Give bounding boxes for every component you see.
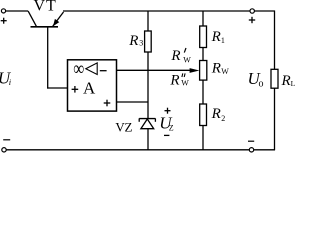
wire right rail bottom (274, 88, 276, 150)
potentiometer RW (200, 61, 207, 81)
label RW lower part (169, 73, 189, 89)
svg-text:∞: ∞ (73, 58, 84, 80)
label R3 (128, 33, 143, 49)
label R1 (211, 29, 225, 45)
resistor RL (271, 69, 278, 88)
wire R3 to zener cathode (147, 52, 149, 118)
wire op-amp inverting input to RW wiper (arrow) (117, 68, 200, 73)
resistor R3 (145, 31, 152, 52)
wire top rail to R1 (202, 11, 204, 26)
label Uo (248, 69, 264, 90)
wire VT base lead down (47, 27, 49, 89)
wire zener anode to bottom rail (147, 129, 149, 150)
svg-text:W: W (183, 56, 191, 65)
svg-text:W: W (181, 79, 189, 88)
wire R1 to RW (202, 48, 204, 61)
svg-text:R: R (211, 61, 221, 77)
transistor VT (28, 11, 63, 27)
svg-text:W: W (221, 67, 229, 76)
svg-text:R: R (128, 33, 138, 49)
svg-text:3: 3 (139, 39, 143, 48)
zener diode VZ (139, 118, 155, 128)
svg-text:R: R (170, 48, 180, 64)
wire R2 to bottom rail (202, 126, 204, 150)
label R2 (211, 106, 226, 123)
input terminal + (top-left) (1, 9, 7, 24)
label RW upper part (170, 48, 191, 65)
svg-text:A: A (83, 79, 96, 98)
resistor R2 (200, 104, 207, 126)
svg-text:L: L (291, 79, 295, 88)
output terminal + (top-right) (249, 9, 255, 23)
label RL (281, 73, 296, 89)
wire right rail top (274, 10, 276, 69)
svg-text:Z: Z (169, 124, 174, 133)
op-amp U A (68, 60, 117, 111)
wire op-amp non-inverting input to zener node (117, 101, 149, 103)
svg-text:o: o (259, 79, 264, 90)
wire top rail to R3 (147, 11, 149, 31)
svg-text:1: 1 (221, 36, 225, 45)
wire RW to R2 (202, 80, 204, 104)
label RW (211, 61, 230, 77)
svg-text:VZ: VZ (115, 119, 132, 134)
svg-text:VT: VT (34, 0, 57, 15)
svg-text:2: 2 (221, 114, 225, 123)
output terminal - (bottom-right) (248, 141, 254, 152)
svg-text:R: R (281, 73, 291, 89)
svg-text:R: R (169, 73, 179, 89)
label Ui (0, 69, 12, 88)
wire VT emitter to top-right corner (63, 10, 275, 12)
wire input to VT collector (5, 10, 28, 12)
resistor R1 (200, 26, 207, 48)
input terminal - (bottom-left) (2, 140, 10, 152)
wire op-amp output to base (47, 87, 67, 89)
bottom rail wire (4, 149, 275, 151)
svg-text:R: R (211, 29, 221, 45)
svg-text:R: R (211, 106, 221, 122)
label UZ with polarity (159, 108, 173, 136)
